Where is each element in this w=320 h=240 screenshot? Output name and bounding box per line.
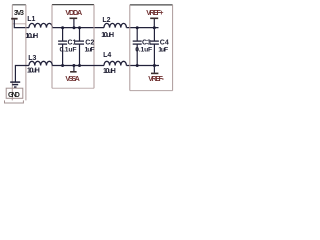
svg-text:C3: C3 <box>142 39 151 46</box>
svg-text:0.1uF: 0.1uF <box>135 47 152 54</box>
power port VREF- <box>148 66 164 84</box>
power port VREF+ <box>146 8 163 28</box>
junction dots C2 <box>78 26 81 29</box>
svg-text:C1: C1 <box>68 39 77 46</box>
svg-text:1uF: 1uF <box>85 46 95 53</box>
svg-text:L2: L2 <box>102 17 110 24</box>
svg-text:3V3: 3V3 <box>14 10 24 17</box>
inductor L4 <box>104 61 126 65</box>
svg-text:C2: C2 <box>85 39 94 46</box>
svg-text:L4: L4 <box>103 52 111 59</box>
svg-text:10uH: 10uH <box>103 68 116 75</box>
inductor L1 <box>29 23 52 27</box>
inductor L2 <box>104 23 126 27</box>
junction dots C1 <box>61 26 64 29</box>
left column body lines <box>11 24 13 101</box>
svg-text:10uH: 10uH <box>27 67 40 74</box>
power port VDDA <box>65 8 82 28</box>
wire top rail left section <box>52 27 104 29</box>
wire bottom rail to right box <box>126 65 159 67</box>
svg-text:L3: L3 <box>28 55 36 62</box>
svg-text:0.1uF: 0.1uF <box>60 46 77 53</box>
blanket box VDDA/VSSA <box>52 5 94 89</box>
svg-text:1uF: 1uF <box>158 47 168 54</box>
svg-text:L1: L1 <box>27 16 35 23</box>
wire bottom rail left section <box>52 65 104 67</box>
svg-text:VSSA: VSSA <box>65 74 79 83</box>
svg-text:VDDA: VDDA <box>65 8 82 17</box>
power port 3V3 box <box>12 5 26 24</box>
svg-text:10uH: 10uH <box>25 33 38 40</box>
junction dot VREF+/C4 top <box>153 26 156 29</box>
junction dot VSSA/bottom rail <box>72 64 75 67</box>
wire 3V3 to L1 <box>14 20 29 28</box>
svg-text:10uH: 10uH <box>101 32 114 39</box>
junction dots C4 <box>153 64 156 67</box>
inductor L3 <box>29 61 52 65</box>
svg-text:GND: GND <box>8 92 20 99</box>
junction dot VDDA/top rail <box>73 26 76 29</box>
svg-text:VREF-: VREF- <box>148 76 164 83</box>
svg-text:C4: C4 <box>160 39 169 46</box>
capacitor C3 <box>133 28 142 66</box>
blanket box VREF <box>130 5 173 91</box>
net label GND box <box>6 88 23 98</box>
ground symbol <box>10 82 20 87</box>
power port VSSA <box>65 66 79 84</box>
bottom bracket <box>5 100 24 103</box>
capacitor C1 <box>58 28 67 66</box>
svg-text:VREF+: VREF+ <box>146 8 163 17</box>
wire top rail to right box <box>126 27 158 29</box>
power bar symbol 3V3 <box>11 18 17 20</box>
capacitor C4 <box>150 28 159 66</box>
ground wire <box>15 66 29 82</box>
capacitor C2 <box>75 28 84 66</box>
junction dots C3 <box>136 26 139 29</box>
